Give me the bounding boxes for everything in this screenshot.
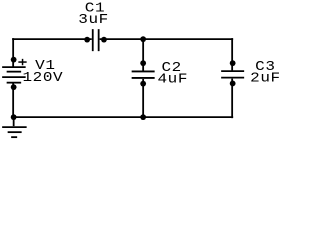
battery V1 <box>2 67 26 83</box>
node C2 top terminal dot <box>140 60 146 66</box>
ground <box>2 117 27 137</box>
wire right branch lower (C3 bottom plate down to bottom rail) <box>231 79 233 119</box>
node C1 right terminal dot <box>101 37 107 43</box>
capacitor C2 <box>132 71 155 78</box>
node C2 bottom terminal dot <box>140 81 146 87</box>
node V1 negative terminal dot <box>11 84 17 90</box>
wire C2 branch upper (top rail down to C2 top plate) <box>142 38 144 71</box>
wire top left segment (node A: top rail from V1+ to C1 left plate) <box>12 38 92 40</box>
node C2 junction dot on top rail <box>140 36 146 42</box>
wire right branch upper (corner down to C3 top plate) <box>231 38 233 70</box>
wire bottom rail (ground net) <box>12 116 233 118</box>
node C1 left terminal dot <box>84 37 90 43</box>
node V1 positive terminal dot <box>11 57 17 63</box>
svg-text:4uF: 4uF <box>157 72 188 87</box>
wire left branch upper (top rail down to V1 + terminal) <box>12 38 14 67</box>
node C2 junction dot on bottom rail <box>140 114 146 120</box>
svg-text:2uF: 2uF <box>250 71 281 86</box>
svg-text:3uF: 3uF <box>78 13 109 28</box>
node ground junction dot on bottom rail <box>11 114 17 120</box>
node C3 top terminal dot <box>230 60 236 66</box>
svg-text:120V: 120V <box>22 71 63 86</box>
capacitor C1 <box>93 29 99 51</box>
wire top right segment (top rail from C1 right plate to right branch corner) <box>100 38 234 40</box>
V1 plus sign <box>18 59 26 65</box>
wire C2 branch lower (C2 bottom plate down to bottom rail) <box>142 79 144 118</box>
node C3 bottom terminal dot <box>230 81 236 87</box>
capacitor C3 <box>221 71 244 78</box>
wire left branch lower (V1 - terminal down to bottom rail) <box>12 83 14 119</box>
